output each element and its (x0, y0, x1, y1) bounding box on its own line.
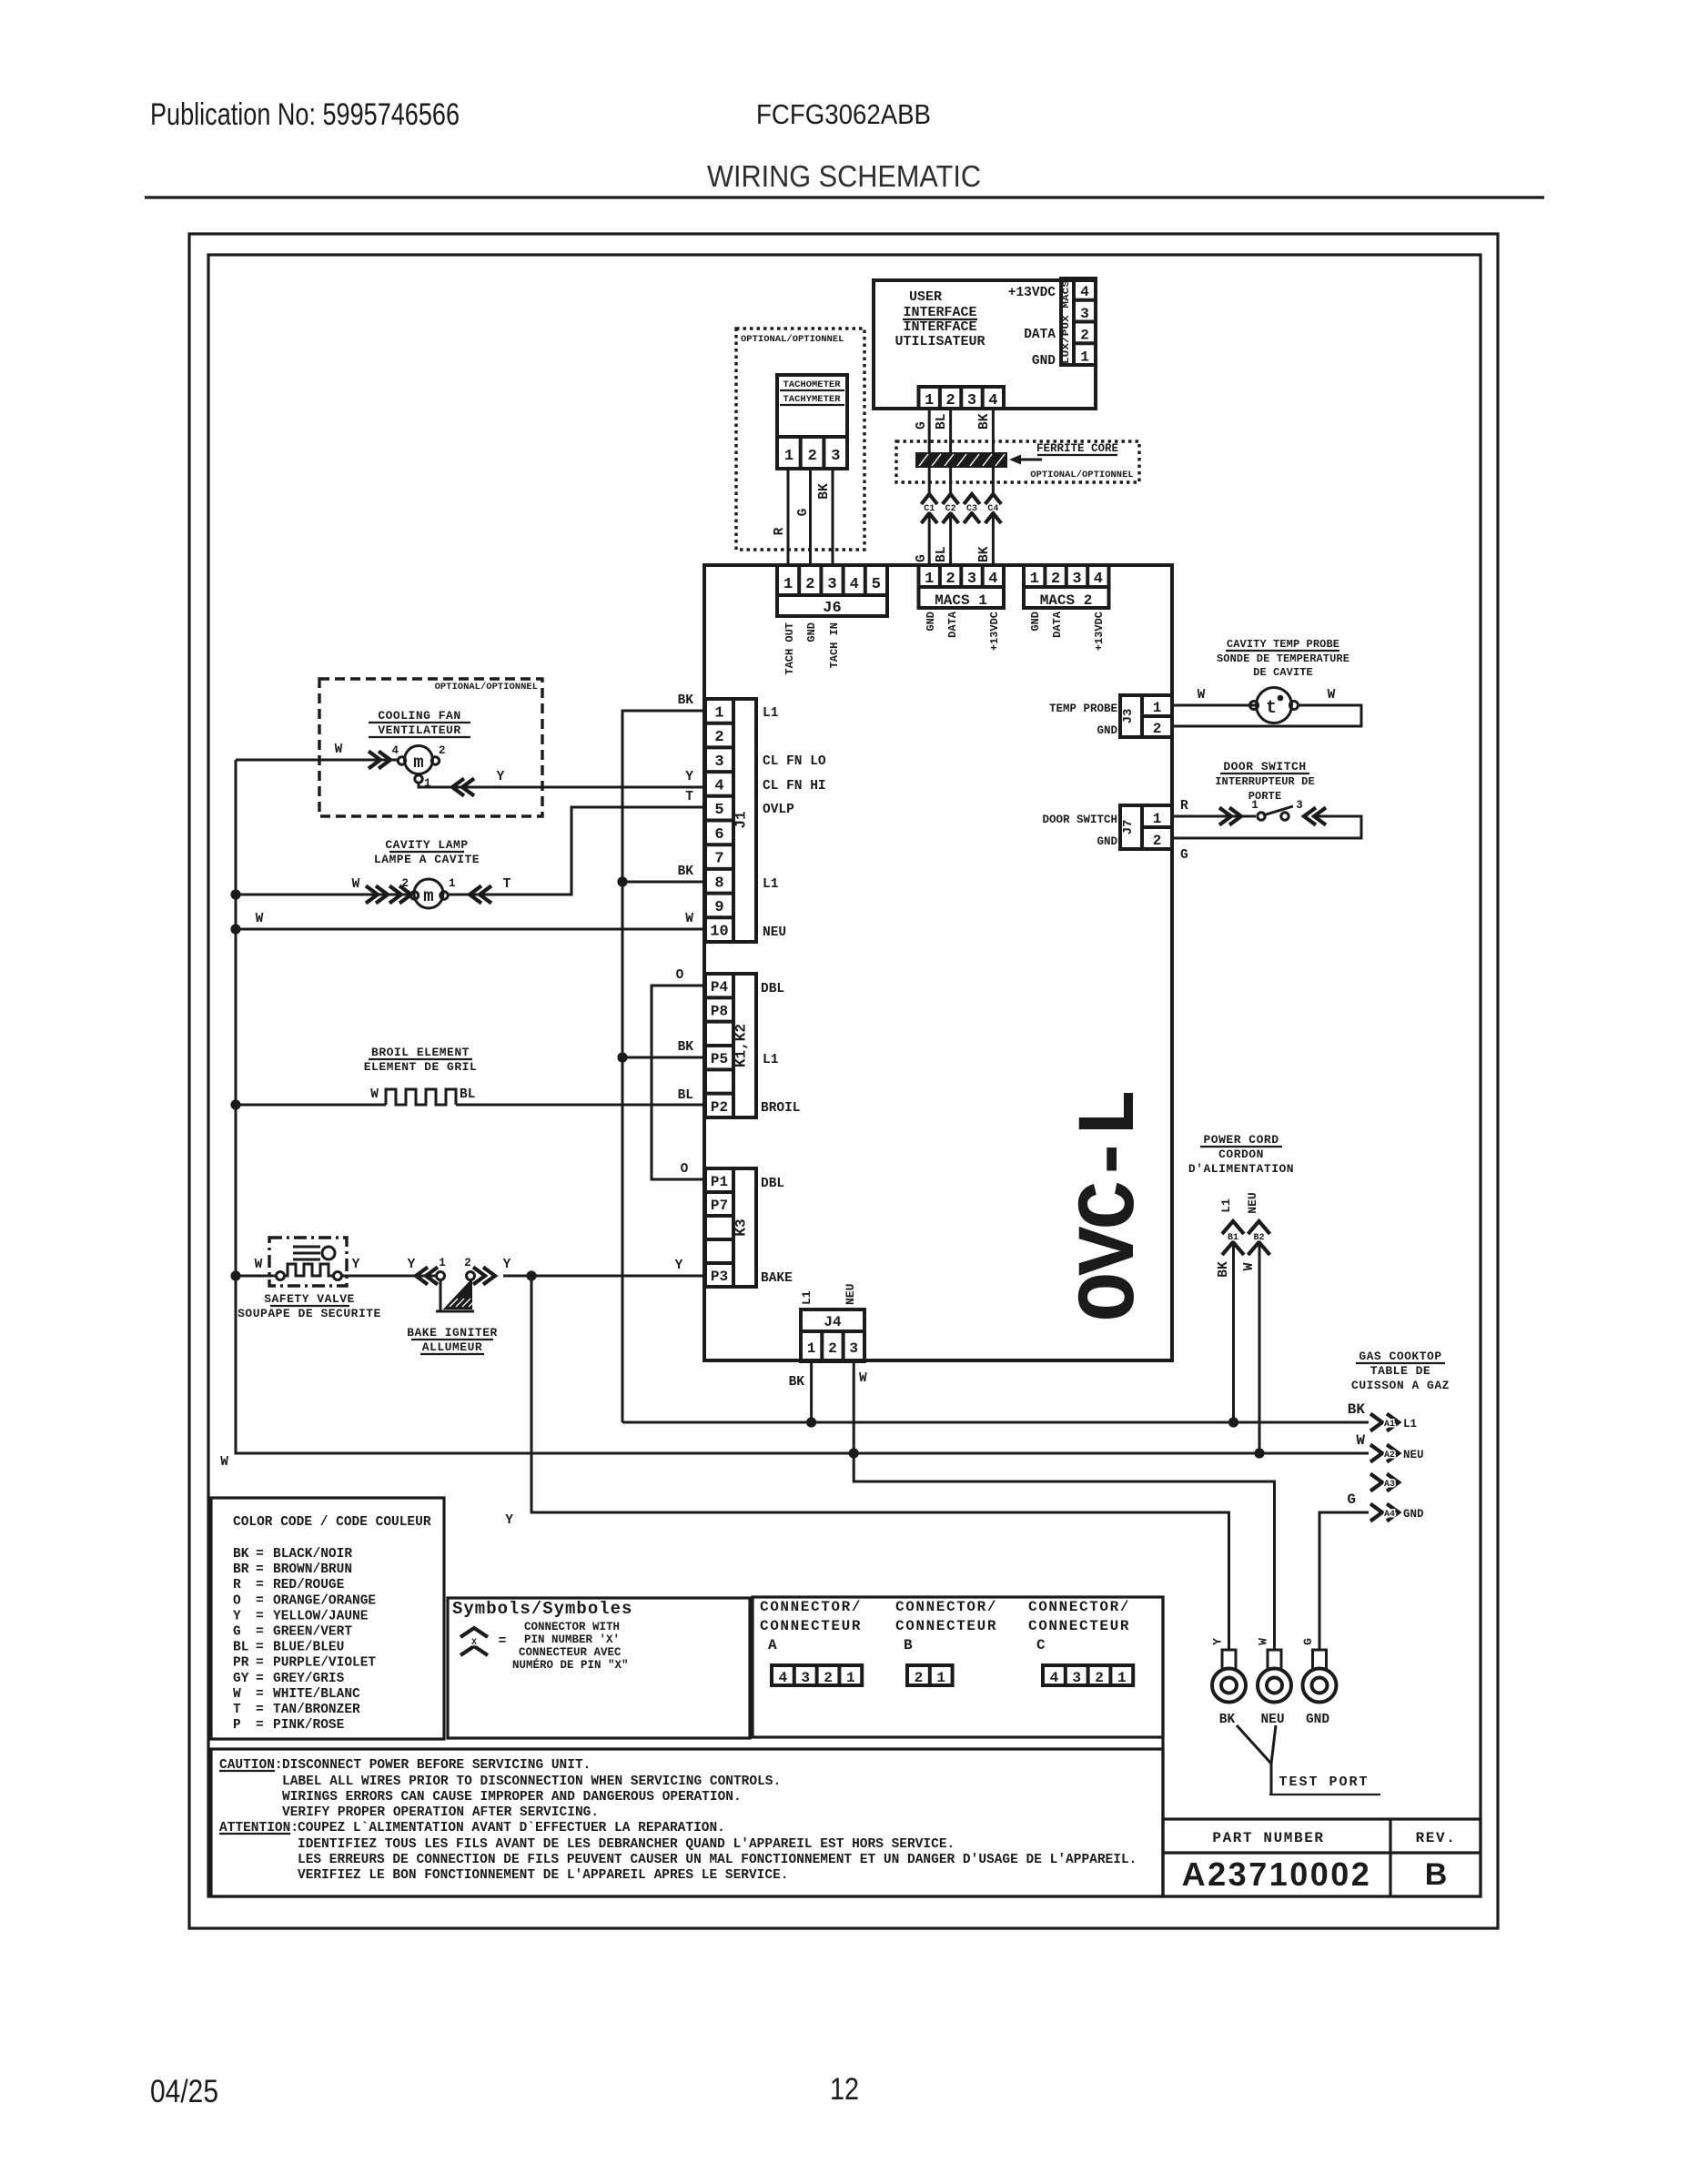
svg-text:COUPEZ L`ALIMENTATION AVANT D`: COUPEZ L`ALIMENTATION AVANT D`EFFECTUER … (298, 1821, 725, 1835)
svg-text:SAFETY VALVE: SAFETY VALVE (264, 1292, 355, 1306)
svg-text:1: 1 (783, 576, 793, 593)
svg-text:OPTIONAL/OPTIONNEL: OPTIONAL/OPTIONNEL (435, 682, 538, 693)
svg-text:G: G (1180, 848, 1188, 863)
svg-text:W: W (1242, 1262, 1257, 1270)
svg-text:B: B (904, 1637, 914, 1653)
svg-text:P4: P4 (711, 979, 729, 996)
igniter connector chevrons right (473, 1268, 495, 1285)
svg-text:A4: A4 (1384, 1510, 1395, 1520)
svg-text:ORANGE/ORANGE: ORANGE/ORANGE (273, 1593, 376, 1608)
svg-text:B: B (1425, 1857, 1448, 1892)
svg-text:PINK/ROSE: PINK/ROSE (273, 1718, 345, 1733)
svg-text:C2: C2 (945, 504, 956, 514)
svg-text:LAMPE A CAVITE: LAMPE A CAVITE (374, 853, 480, 866)
svg-text:WIRING SCHEMATIC: WIRING SCHEMATIC (707, 159, 981, 193)
svg-text:L1: L1 (1219, 1198, 1233, 1213)
junction W bus safety valve (230, 1270, 240, 1280)
svg-text:W: W (1257, 1638, 1270, 1645)
svg-text:BL: BL (460, 1087, 475, 1102)
svg-text:J4: J4 (824, 1314, 842, 1330)
svg-text:2: 2 (828, 1340, 837, 1357)
door switch connector chevrons right (1304, 808, 1326, 825)
svg-text:IDENTIFIEZ TOUS LES FILS AVANT: IDENTIFIEZ TOUS LES FILS AVANT DE LES DE… (298, 1837, 955, 1852)
svg-text:4: 4 (391, 744, 399, 757)
svg-text:TEST PORT: TEST PORT (1279, 1774, 1369, 1790)
safety valve dash-dot box (269, 1238, 347, 1286)
svg-text:GND: GND (1306, 1713, 1329, 1727)
svg-text:=: = (256, 1656, 264, 1671)
svg-text:3: 3 (967, 392, 976, 409)
svg-text:W: W (685, 912, 693, 926)
wire BK bus to J1 pin8 (622, 881, 705, 884)
svg-text:+13VDC: +13VDC (1093, 612, 1106, 651)
svg-text:T: T (503, 877, 511, 892)
wire tach pin2 to J6 pin2 (G) (809, 469, 812, 565)
svg-text:LUX/PUX MACS: LUX/PUX MACS (1061, 280, 1072, 364)
svg-text:3: 3 (827, 576, 836, 593)
wire door switch return to J7 pin2 (1172, 816, 1361, 838)
wire igniter to K3 P3 (Y) (503, 1275, 705, 1278)
svg-text:GREY/GRIS: GREY/GRIS (273, 1672, 345, 1686)
test port pointer lines (1237, 1725, 1276, 1795)
svg-text:8: 8 (714, 875, 723, 892)
svg-text:2: 2 (714, 729, 723, 746)
svg-text:R: R (1180, 799, 1188, 814)
svg-text:A23710002: A23710002 (1182, 1855, 1372, 1893)
svg-text:1: 1 (1251, 799, 1258, 812)
svg-text:BL: BL (935, 547, 949, 562)
svg-text:O: O (681, 1162, 689, 1177)
svg-text:C1: C1 (924, 504, 935, 514)
wire safety valve to igniter (341, 1275, 437, 1278)
symbol connector chevrons with X (460, 1628, 506, 1655)
svg-text:Symbols/Symboles: Symbols/Symboles (452, 1599, 632, 1619)
svg-text:BR: BR (233, 1562, 249, 1577)
igniter connector chevrons left (416, 1268, 438, 1285)
svg-text:BK: BK (977, 546, 992, 562)
svg-text:BL: BL (678, 1088, 693, 1103)
svg-text:MACS 1: MACS 1 (935, 592, 987, 609)
svg-text:T: T (685, 790, 693, 804)
svg-text:A1: A1 (1384, 1420, 1395, 1430)
svg-text:CONNECTEUR: CONNECTEUR (760, 1618, 862, 1634)
svg-text:W: W (1328, 688, 1336, 703)
svg-text:W: W (859, 1371, 867, 1386)
ring terminal GND (1303, 1650, 1337, 1727)
svg-text:TEMP PROBE: TEMP PROBE (1049, 703, 1117, 715)
user interface module box (874, 280, 1096, 409)
wire W bus to lamp (236, 894, 411, 896)
svg-text:W: W (220, 1455, 228, 1470)
svg-text:DOOR SWITCH: DOOR SWITCH (1223, 760, 1306, 773)
svg-text:5: 5 (714, 802, 723, 819)
connector B column (895, 1599, 997, 1686)
outer border frame (189, 234, 1498, 1928)
svg-text:OPTIONAL/OPTIONNEL: OPTIONAL/OPTIONNEL (741, 334, 844, 345)
title rule (145, 196, 1544, 198)
svg-text:BL: BL (233, 1641, 248, 1655)
connector LUX/PUX MACS on UI box (1061, 278, 1096, 365)
svg-text:P5: P5 (711, 1051, 728, 1067)
power cord terminal B1 (1222, 1221, 1244, 1255)
svg-text:=: = (256, 1578, 264, 1592)
svg-text:A2: A2 (1384, 1451, 1395, 1461)
connector J1 on board (705, 699, 756, 942)
gas cooktop connector A1 (1370, 1414, 1417, 1431)
safety valve solenoid symbol (293, 1247, 335, 1259)
cavity lamp LMP1 (401, 877, 455, 908)
svg-text:=: = (256, 1703, 264, 1717)
wire J3 pin1 to temp probe (1172, 704, 1256, 707)
svg-text:NEU: NEU (1403, 1449, 1424, 1461)
svg-text:BK: BK (678, 1040, 694, 1055)
svg-text:NUMÉRO DE PIN "X": NUMÉRO DE PIN "X" (512, 1658, 629, 1672)
svg-text:K3: K3 (733, 1218, 750, 1236)
svg-text:GND: GND (1097, 835, 1117, 848)
svg-text:5: 5 (872, 576, 881, 593)
wire J7 pin1 to door switch (1172, 815, 1256, 818)
svg-text:TACHYMETER: TACHYMETER (783, 394, 841, 405)
svg-text:2: 2 (824, 1670, 833, 1686)
temp probe RT1 (1250, 688, 1299, 723)
junction BK bus P5 (617, 1052, 627, 1062)
safety valve heater coil (277, 1264, 342, 1280)
wire lamp to T corner to J1 pin5 (448, 807, 705, 895)
optional dashed box (cooling fan) (319, 679, 542, 816)
svg-text:SONDE DE TEMPERATURE: SONDE DE TEMPERATURE (1217, 652, 1349, 665)
svg-text:CONNECTOR/: CONNECTOR/ (1028, 1599, 1130, 1615)
svg-text:A: A (768, 1637, 778, 1653)
svg-text:K1,K2: K1,K2 (733, 1024, 750, 1067)
svg-text:6: 6 (714, 826, 723, 844)
gas cooktop connector A2 (1370, 1445, 1424, 1462)
svg-text:4: 4 (1094, 571, 1103, 588)
lamp connector chevrons left (366, 886, 411, 904)
svg-text:BK: BK (817, 483, 832, 500)
svg-text:Y: Y (497, 770, 505, 784)
svg-text:Y: Y (1211, 1638, 1225, 1645)
svg-text:TABLE DE: TABLE DE (1370, 1364, 1430, 1378)
wire BK bus to K pin P5 (622, 1057, 705, 1059)
svg-text:CONNECTEUR: CONNECTEUR (1028, 1618, 1130, 1634)
svg-text:BK: BK (977, 413, 992, 430)
svg-text:W: W (335, 743, 343, 757)
svg-text:P8: P8 (711, 1004, 728, 1020)
svg-text:POWER CORD: POWER CORD (1203, 1133, 1279, 1147)
svg-text:BK: BK (1217, 1261, 1231, 1278)
svg-text:DISCONNECT POWER BEFORE SERVIC: DISCONNECT POWER BEFORE SERVICING UNIT. (282, 1758, 591, 1773)
color code table (211, 1498, 444, 1739)
svg-text:G: G (915, 421, 929, 430)
svg-text:CONNECTOR/: CONNECTOR/ (760, 1599, 862, 1615)
svg-text:1: 1 (1117, 1670, 1127, 1686)
svg-text:TACHOMETER: TACHOMETER (783, 379, 841, 390)
svg-text:3: 3 (1072, 571, 1081, 588)
svg-text:SOUPAPE DE SECURITE: SOUPAPE DE SECURITE (238, 1307, 381, 1320)
connector C column (1028, 1599, 1133, 1686)
svg-text:USER: USER (909, 289, 942, 305)
door switch connector chevrons left (1219, 808, 1241, 825)
svg-text:m: m (413, 753, 423, 773)
svg-text:INTERFACE: INTERFACE (903, 305, 976, 320)
svg-text:FCFG3062ABB: FCFG3062ABB (756, 98, 931, 130)
wire K P4 to K3 P1 (O) (652, 986, 705, 1179)
svg-text:4: 4 (850, 576, 859, 593)
junction BK bus pin8 (617, 876, 627, 886)
junction NEU pin10 wire (230, 924, 240, 934)
wire B2 to W line (1258, 1242, 1261, 1453)
svg-text:4: 4 (779, 1670, 788, 1686)
svg-text:P7: P7 (711, 1198, 728, 1214)
junction W bus broil (230, 1099, 240, 1109)
wire GND ring to gas cooktop A4 (G) (1319, 1512, 1369, 1651)
svg-text:2: 2 (1051, 571, 1060, 588)
svg-text:DOOR SWITCH: DOOR SWITCH (1042, 814, 1117, 826)
connector pin-order table (753, 1597, 1163, 1737)
svg-text:Y: Y (675, 1259, 683, 1273)
svg-text:2: 2 (464, 1257, 471, 1269)
svg-text:DE CAVITE: DE CAVITE (1253, 666, 1313, 679)
svg-text:L1: L1 (1403, 1418, 1417, 1431)
svg-text:LES ERREURS DE CONNECTION DE F: LES ERREURS DE CONNECTION DE FILS PEUVEN… (298, 1853, 1137, 1867)
wire UI pin1 to MACS1 pin1 (G) (928, 409, 931, 494)
connector J4 on board (801, 1309, 864, 1361)
svg-text:COLOR CODE / CODE COULEUR: COLOR CODE / CODE COULEUR (233, 1515, 431, 1530)
wire UI pin4 to MACS1 pin4 (BK) (992, 409, 995, 494)
svg-text:W: W (256, 912, 264, 926)
svg-text:BK: BK (789, 1375, 805, 1390)
svg-text:W: W (352, 877, 360, 892)
svg-text:O: O (676, 968, 684, 983)
svg-text:BK: BK (678, 864, 694, 879)
svg-text:3: 3 (831, 448, 840, 465)
wire W bus to J1 pin10 (NEU) (236, 928, 705, 931)
svg-text:GND: GND (805, 622, 818, 642)
svg-text:Publication No: 5995746566: Publication No: 5995746566 (150, 97, 460, 132)
svg-text:1: 1 (936, 1670, 945, 1686)
svg-text:1: 1 (1153, 811, 1162, 827)
ring terminal BK (1212, 1650, 1246, 1727)
svg-text:INTERFACE: INTERFACE (903, 319, 976, 335)
svg-text:J3: J3 (1121, 709, 1136, 724)
svg-text:W: W (370, 1087, 379, 1102)
svg-text:=: = (256, 1562, 264, 1577)
svg-text:W: W (233, 1687, 241, 1702)
svg-text:2: 2 (1080, 328, 1089, 344)
svg-text:2: 2 (945, 392, 955, 409)
svg-text:Y: Y (685, 770, 693, 784)
svg-text:2: 2 (401, 877, 409, 890)
svg-text:J7: J7 (1121, 820, 1136, 835)
svg-text:3: 3 (849, 1340, 858, 1357)
junction power cord B2 (1254, 1448, 1264, 1458)
control board OVC-L outline (704, 565, 1172, 1360)
svg-text:GREEN/VERT: GREEN/VERT (273, 1625, 352, 1640)
svg-text:BK: BK (1219, 1713, 1236, 1727)
svg-text:CONNECTOR WITH: CONNECTOR WITH (524, 1621, 620, 1633)
svg-text:CAVITY TEMP PROBE: CAVITY TEMP PROBE (1227, 638, 1339, 651)
svg-text:GND: GND (1403, 1508, 1424, 1521)
tachometer box (777, 375, 847, 469)
svg-text:GAS COOKTOP: GAS COOKTOP (1359, 1350, 1441, 1363)
svg-text:C: C (1036, 1637, 1046, 1653)
svg-text:CONNECTEUR AVEC: CONNECTEUR AVEC (519, 1646, 622, 1659)
connector J3 on board (1120, 695, 1172, 737)
svg-text:BROWN/BRUN: BROWN/BRUN (273, 1562, 352, 1577)
svg-text:GND: GND (925, 612, 937, 632)
svg-text:ALLUMEUR: ALLUMEUR (422, 1340, 482, 1354)
svg-text:X: X (471, 1638, 477, 1648)
part number and revision table (1163, 1596, 1481, 1896)
svg-text:O: O (233, 1593, 241, 1608)
junction J4 pin3 wire (849, 1448, 859, 1458)
svg-text:2: 2 (1153, 721, 1162, 737)
svg-text:CONNECTEUR: CONNECTEUR (895, 1618, 997, 1634)
svg-text:G: G (796, 509, 811, 517)
junction lamp wire (230, 889, 240, 899)
svg-text:C3: C3 (966, 504, 977, 514)
wire Y branch to BK ring terminal (531, 1276, 1229, 1651)
svg-text:CL FN LO: CL FN LO (763, 754, 826, 769)
svg-text:B2: B2 (1253, 1233, 1264, 1243)
svg-text:ELEMENT DE GRIL: ELEMENT DE GRIL (364, 1060, 478, 1074)
svg-text:TACH IN: TACH IN (828, 622, 841, 668)
wire BK bus to gas cooktop A1 (622, 1421, 1369, 1424)
svg-text:t: t (1266, 698, 1277, 719)
lamp connector chevrons right (470, 886, 491, 904)
svg-text:DBL: DBL (761, 1177, 784, 1191)
svg-text:3: 3 (714, 753, 723, 771)
svg-text:=: = (256, 1687, 264, 1702)
wire J4 pin3 down (W) (853, 1361, 855, 1453)
wire B1 to BK line (1232, 1242, 1235, 1422)
connector C2 (943, 494, 959, 523)
svg-text:NEU: NEU (844, 1284, 857, 1305)
svg-text:INTERRUPTEUR DE: INTERRUPTEUR DE (1215, 775, 1315, 788)
ring terminal NEU (1258, 1650, 1291, 1727)
svg-text:BL: BL (935, 414, 949, 430)
svg-text:3: 3 (967, 571, 976, 588)
svg-text:LABEL ALL WIRES PRIOR TO DISCO: LABEL ALL WIRES PRIOR TO DISCONNECTION W… (282, 1774, 781, 1789)
svg-text:1: 1 (449, 877, 456, 890)
svg-text:3: 3 (1296, 799, 1303, 812)
svg-text:GND: GND (1097, 724, 1117, 737)
wire W bus corner to gas cooktop A2 (236, 760, 1369, 1453)
svg-text:TACH OUT: TACH OUT (783, 622, 796, 675)
svg-text:2: 2 (915, 1670, 924, 1686)
svg-text:4: 4 (1080, 284, 1089, 300)
svg-text:WHITE/BLANC: WHITE/BLANC (273, 1687, 360, 1702)
svg-text:BLUE/BLEU: BLUE/BLEU (273, 1641, 344, 1655)
junction power cord B1 (1228, 1417, 1238, 1427)
svg-text:1: 1 (807, 1340, 816, 1357)
svg-text:4: 4 (988, 392, 997, 409)
connector MACS 2 on board (1024, 565, 1109, 609)
relay contacts K1,K2 block (705, 974, 756, 1117)
wire W bus to safety valve (236, 1275, 277, 1278)
svg-text:12: 12 (830, 2072, 859, 2107)
svg-text:D'ALIMENTATION: D'ALIMENTATION (1188, 1162, 1294, 1176)
svg-text:CONNECTOR/: CONNECTOR/ (895, 1599, 997, 1615)
svg-text:2: 2 (808, 448, 817, 465)
svg-text:CUISSON A GAZ: CUISSON A GAZ (1351, 1379, 1450, 1392)
svg-text:G: G (915, 554, 929, 562)
svg-text:P3: P3 (711, 1269, 728, 1285)
svg-text:B1: B1 (1228, 1233, 1238, 1243)
svg-text:=: = (256, 1547, 264, 1562)
svg-text:NEU: NEU (1246, 1192, 1259, 1213)
svg-text:m: m (423, 886, 433, 906)
svg-text:L1: L1 (763, 877, 779, 892)
gas cooktop connector A4 (1370, 1504, 1424, 1522)
svg-text:DATA: DATA (946, 611, 959, 638)
UI bottom connector pins 1-4 (919, 387, 1005, 409)
svg-text:3: 3 (1080, 306, 1089, 322)
arrow to ferrite core (1017, 459, 1042, 461)
svg-text:3: 3 (1072, 1670, 1081, 1686)
svg-text:DATA: DATA (1024, 328, 1056, 342)
svg-text:C4: C4 (987, 504, 998, 514)
svg-text:Y: Y (408, 1258, 416, 1272)
svg-text:=: = (256, 1641, 264, 1655)
svg-text:DATA: DATA (1051, 611, 1064, 638)
svg-text:OVC-L: OVC-L (1066, 1092, 1158, 1322)
wire W to fan motor (236, 759, 398, 762)
optional dashed box (tachometer) (736, 329, 864, 550)
svg-text:2: 2 (439, 744, 446, 757)
ferrite core dashed box (896, 441, 1139, 482)
svg-text:R: R (773, 527, 787, 535)
wire J4 pin1 down (BK) (810, 1361, 813, 1422)
connector C1 (921, 494, 937, 523)
svg-text:P2: P2 (711, 1099, 728, 1116)
svg-text:=: = (256, 1718, 264, 1733)
svg-text:RED/ROUGE: RED/ROUGE (273, 1578, 345, 1592)
svg-text:4: 4 (988, 571, 997, 588)
svg-text:3: 3 (801, 1670, 810, 1686)
connector J6 on board (777, 565, 887, 617)
svg-text:P1: P1 (711, 1174, 728, 1190)
svg-text:NEU: NEU (763, 925, 786, 940)
svg-text:L1: L1 (763, 706, 779, 721)
cooling fan motor M1 (391, 744, 445, 790)
svg-text:2: 2 (1153, 833, 1162, 849)
svg-text:BLACK/NOIR: BLACK/NOIR (273, 1547, 352, 1562)
svg-text:2: 2 (805, 576, 814, 593)
svg-text:PR: PR (233, 1656, 249, 1671)
svg-text:=: = (499, 1634, 507, 1649)
connector C4 (986, 494, 1002, 523)
svg-text:PIN NUMBER 'X': PIN NUMBER 'X' (524, 1633, 620, 1646)
wire tach pin3 to J6 pin3 (BK) (832, 469, 834, 565)
caution notice box (211, 1749, 1163, 1896)
svg-text:04/25: 04/25 (150, 2074, 218, 2109)
svg-text:TAN/BRONZER: TAN/BRONZER (273, 1703, 360, 1717)
svg-text:REV.: REV. (1416, 1830, 1457, 1846)
svg-text:BAKE: BAKE (761, 1271, 793, 1286)
svg-text:BROIL: BROIL (761, 1101, 801, 1116)
gas cooktop connector A3 (1370, 1474, 1399, 1491)
svg-text:FERRITE CORE: FERRITE CORE (1036, 442, 1118, 455)
svg-text:=: = (256, 1672, 264, 1686)
svg-text:GY: GY (233, 1672, 249, 1686)
svg-text:Y: Y (233, 1609, 241, 1623)
symbol legend text (512, 1621, 629, 1672)
svg-text:1: 1 (439, 1257, 446, 1269)
svg-text:W: W (1198, 688, 1206, 703)
svg-text:OPTIONAL/OPTIONNEL: OPTIONAL/OPTIONNEL (1030, 470, 1133, 480)
svg-text:=: = (256, 1625, 264, 1640)
